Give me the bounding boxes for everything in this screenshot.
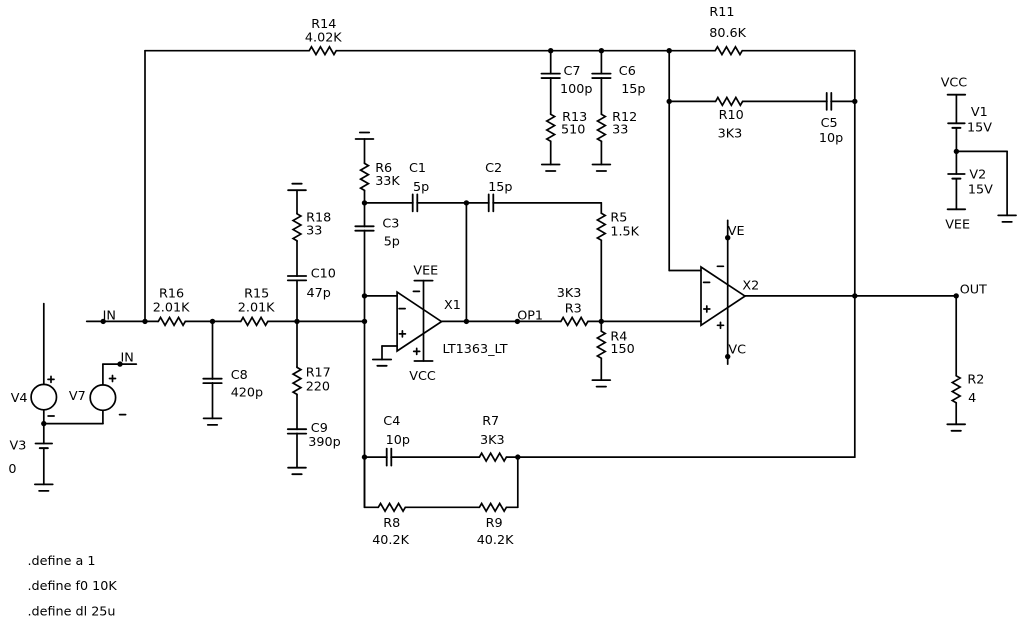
svg-text:33K: 33K [375,174,400,189]
svg-text:C7: C7 [564,64,581,79]
svg-text:4.02K: 4.02K [305,31,342,46]
svg-text:C9: C9 [311,421,328,436]
svg-text:1.5K: 1.5K [610,225,639,240]
svg-text:R7: R7 [482,414,499,429]
svg-text:VCC: VCC [941,75,968,90]
svg-text:R5: R5 [610,211,627,226]
svg-text:33: 33 [306,223,322,238]
svg-text:IN: IN [121,350,134,365]
svg-text:R8: R8 [383,516,400,531]
svg-text:33: 33 [612,123,628,138]
svg-text:OP1: OP1 [517,308,543,323]
svg-text:R16: R16 [159,286,184,301]
svg-text:C8: C8 [231,368,248,383]
svg-text:C6: C6 [619,64,636,79]
svg-text:15p: 15p [488,180,512,195]
svg-text:3K3: 3K3 [718,127,743,142]
svg-text:15V: 15V [968,183,993,198]
svg-text:C2: C2 [485,161,502,176]
svg-text:80.6K: 80.6K [709,26,746,41]
svg-text:150: 150 [610,342,634,357]
svg-text:C5: C5 [821,116,838,131]
svg-text:.define a 1: .define a 1 [28,554,96,569]
svg-text:2.01K: 2.01K [153,301,190,316]
svg-text:OUT: OUT [960,282,987,297]
svg-text:R2: R2 [967,372,984,387]
svg-text:C10: C10 [311,267,336,282]
svg-text:C4: C4 [383,414,400,429]
svg-text:15p: 15p [621,82,645,97]
svg-text:V2: V2 [969,168,986,183]
svg-text:R3: R3 [565,301,582,316]
svg-text:R9: R9 [486,516,503,531]
svg-text:510: 510 [561,123,585,138]
svg-text:VE: VE [728,224,745,239]
svg-text:.define f0 10K: .define f0 10K [28,579,118,594]
svg-text:VC: VC [728,342,746,357]
svg-text:V7: V7 [69,389,86,404]
svg-text:5p: 5p [384,235,400,250]
svg-text:X1: X1 [444,298,461,313]
svg-text:.define dl 25u: .define dl 25u [28,604,116,619]
svg-text:15V: 15V [967,121,992,136]
svg-text:420p: 420p [231,386,263,401]
svg-text:47p: 47p [307,286,331,301]
svg-text:R10: R10 [719,108,744,123]
svg-text:R11: R11 [709,5,734,20]
svg-text:VEE: VEE [945,217,970,232]
svg-text:5p: 5p [413,180,429,195]
svg-text:3K3: 3K3 [557,286,582,301]
svg-text:40.2K: 40.2K [372,533,409,548]
svg-text:390p: 390p [308,435,340,450]
svg-text:LT1363_LT: LT1363_LT [443,342,508,357]
svg-text:V3: V3 [10,438,27,453]
svg-text:VEE: VEE [413,264,438,279]
svg-text:10p: 10p [386,433,410,448]
svg-text:40.2K: 40.2K [477,533,514,548]
svg-text:VCC: VCC [409,369,436,384]
svg-text:R15: R15 [244,286,269,301]
svg-text:X2: X2 [742,278,759,293]
svg-text:C1: C1 [409,161,426,176]
svg-text:4: 4 [968,391,976,406]
svg-text:0: 0 [8,462,16,477]
svg-text:IN: IN [103,308,116,323]
svg-text:10p: 10p [819,131,843,146]
svg-text:V4: V4 [11,391,28,406]
svg-text:3K3: 3K3 [480,433,505,448]
svg-text:100p: 100p [560,82,592,97]
svg-text:C3: C3 [382,216,399,231]
svg-text:220: 220 [306,379,330,394]
svg-text:V1: V1 [971,105,988,120]
svg-text:2.01K: 2.01K [238,301,275,316]
